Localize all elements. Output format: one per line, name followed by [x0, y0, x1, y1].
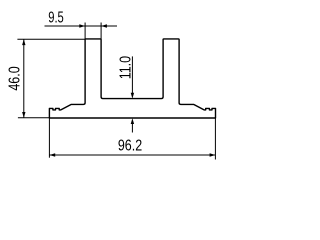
- svg-text:11.0: 11.0: [117, 56, 135, 79]
- svg-text:46.0: 46.0: [6, 66, 24, 90]
- svg-text:96.2: 96.2: [118, 137, 142, 155]
- svg-text:9.5: 9.5: [48, 8, 64, 27]
